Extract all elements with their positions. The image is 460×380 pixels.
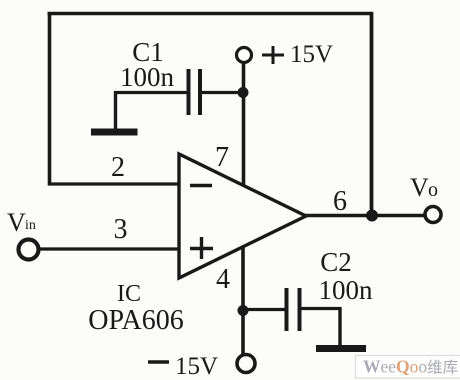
label +15V bbox=[262, 41, 333, 68]
+15V terminal bbox=[237, 48, 252, 63]
svg-text:100n: 100n bbox=[319, 275, 374, 305]
label Vin bbox=[7, 208, 36, 237]
Vin terminal bbox=[19, 240, 39, 260]
ground (C2) bar bbox=[316, 345, 366, 352]
wire: output (pin 6) bbox=[305, 214, 425, 217]
wire: feedback right vertical bbox=[370, 12, 374, 216]
svg-text:C2: C2 bbox=[320, 247, 352, 277]
Vo terminal bbox=[425, 207, 441, 223]
op-amp U1 bbox=[179, 154, 306, 278]
svg-text:OPA606: OPA606 bbox=[88, 305, 183, 336]
svg-text:in: in bbox=[25, 218, 36, 233]
label Vo bbox=[410, 173, 438, 202]
svg-text:100n: 100n bbox=[120, 62, 175, 92]
capacitor C2 wires bbox=[243, 308, 285, 311]
junction dot C1/V+ bbox=[238, 87, 249, 98]
junction dot output/feedback bbox=[366, 210, 378, 222]
ground (C1) bar bbox=[91, 129, 138, 136]
svg-text:o: o bbox=[428, 179, 438, 201]
capacitor C2 plates bbox=[285, 288, 289, 331]
svg-text:15V: 15V bbox=[175, 353, 218, 380]
wire: pin 2 input bbox=[48, 182, 179, 185]
svg-text:6: 6 bbox=[333, 186, 347, 217]
junction dot C2/V- bbox=[238, 305, 249, 316]
ground (C1) wire bbox=[114, 91, 117, 129]
svg-text:WeeQoo维库: WeeQoo维库 bbox=[363, 357, 458, 377]
op-amp minus input mark bbox=[190, 184, 212, 187]
capacitor C1 plates bbox=[187, 69, 191, 115]
svg-text:IC: IC bbox=[117, 281, 141, 307]
svg-text:7: 7 bbox=[215, 142, 229, 173]
watermark box bbox=[356, 356, 460, 379]
label -15V bbox=[148, 353, 218, 380]
svg-text:4: 4 bbox=[216, 264, 230, 295]
svg-text:2: 2 bbox=[111, 152, 125, 183]
svg-text:V: V bbox=[410, 173, 429, 202]
capacitor C1 wires bbox=[114, 91, 187, 94]
svg-text:15V: 15V bbox=[290, 41, 333, 68]
svg-text:V: V bbox=[7, 208, 26, 237]
wire: pin 3 input bbox=[39, 247, 179, 250]
wire: V+ supply (pin 7) bbox=[242, 62, 246, 186]
wire: feedback left vertical bbox=[48, 12, 52, 186]
wire: C2 to ground bbox=[338, 307, 341, 346]
op-amp plus input mark bbox=[190, 237, 213, 259]
wire: top feedback bbox=[48, 12, 374, 16]
svg-text:3: 3 bbox=[114, 214, 128, 245]
wire: V- supply (pin 4) bbox=[241, 247, 245, 354]
-15V terminal bbox=[237, 355, 255, 373]
